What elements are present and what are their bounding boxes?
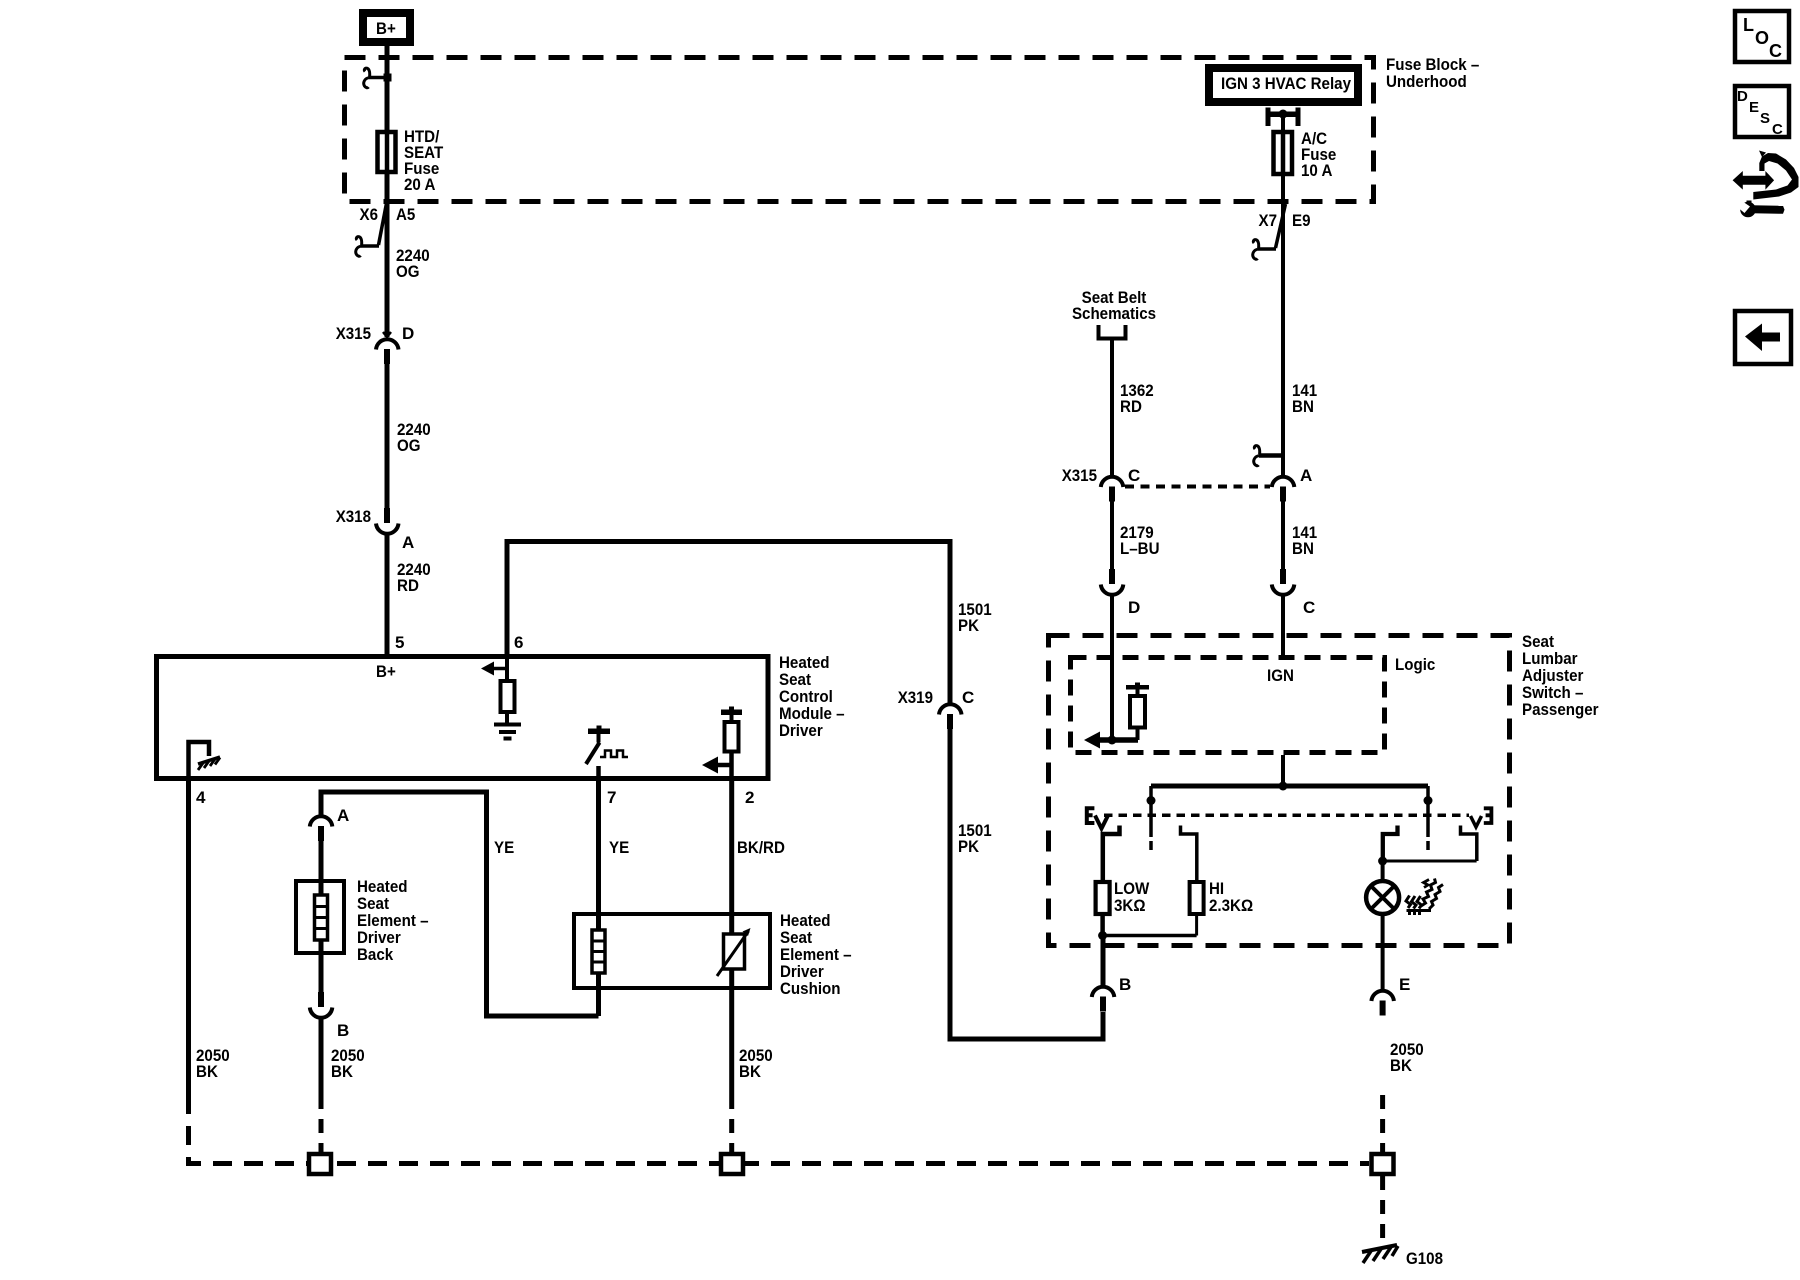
2050 BK label (pin E wire) <box>1390 1040 1424 1075</box>
wire fuse to X315 D <box>385 172 390 337</box>
svg-text:B+: B+ <box>376 19 396 38</box>
svg-text:7: 7 <box>607 788 616 807</box>
svg-text:Cushion: Cushion <box>780 979 841 998</box>
lumbar connector pin B <box>1092 975 1131 1012</box>
right switch movable contact <box>1424 786 1433 850</box>
wire back element to pin B <box>319 940 324 992</box>
svg-text:IGN 3 HVAC Relay: IGN 3 HVAC Relay <box>1221 74 1351 93</box>
svg-text:BN: BN <box>1292 539 1314 558</box>
svg-text:X315: X315 <box>1062 466 1097 485</box>
lumbar connector pin E <box>1371 975 1410 1016</box>
ground splice junction 2 <box>721 1154 743 1174</box>
svg-text:IGN: IGN <box>1267 666 1294 685</box>
switch supply rail <box>1151 782 1428 791</box>
svg-text:OG: OG <box>397 436 421 455</box>
logic internal: pull-up resistor with supply bar <box>1126 683 1149 741</box>
svg-text:Passenger: Passenger <box>1522 700 1599 719</box>
svg-text:C: C <box>962 688 974 707</box>
in-line connector pin A (seat back element) <box>310 806 349 841</box>
wire X315 C down (2179 L-BU) <box>1110 502 1114 570</box>
wire lamp to pin E <box>1381 914 1385 990</box>
left switch position symbol Ev <box>1087 808 1108 828</box>
svg-text:D: D <box>1737 88 1748 105</box>
wire logic output to switch rail <box>1281 755 1285 786</box>
logic internal: input arrow <box>1084 732 1138 749</box>
Seat Lumbar Adjuster Switch - Passenger dashed box <box>1049 632 1599 946</box>
wire pin A jumper from cushion element return <box>321 792 599 1016</box>
svg-text:C: C <box>1128 466 1140 485</box>
svg-text:G108: G108 <box>1406 1249 1443 1268</box>
X7 / E9 fuse block connector labels <box>1259 211 1311 230</box>
mechanical linkage dashed line <box>1104 813 1469 817</box>
svg-text:A: A <box>337 806 349 825</box>
wire X319 down and over to lumbar switch pin B (1501 PK) <box>950 729 1103 1039</box>
svg-text:B: B <box>1119 975 1131 994</box>
left switch fixed contact (LOW branch) <box>1103 826 1120 883</box>
relay output terminal bracket <box>1266 108 1301 131</box>
svg-text:Back: Back <box>357 945 394 964</box>
svg-text:4: 4 <box>196 788 206 807</box>
lamp feed junction <box>1378 857 1477 882</box>
svg-text:2.3KΩ: 2.3KΩ <box>1209 896 1253 915</box>
svg-text:YE: YE <box>494 838 514 857</box>
Heated Seat Element - Driver Back <box>296 877 429 964</box>
Fuse Block - Underhood label <box>1386 55 1479 91</box>
ground splice junction 3 <box>1372 1154 1394 1174</box>
LOW 3K resistor <box>1096 879 1151 915</box>
2050 BK label (pin 2 wire) <box>739 1046 773 1081</box>
svg-text:RD: RD <box>1120 397 1142 416</box>
svg-text:Logic: Logic <box>1395 655 1435 674</box>
LOC tab button <box>1735 11 1789 62</box>
svg-text:BK/RD: BK/RD <box>737 838 785 857</box>
LOW/HI junction to pin B <box>1098 914 1197 986</box>
clip connector above X315 A <box>1254 446 1283 466</box>
module internal: pin 7 PWM switch <box>586 726 628 779</box>
dashed ground drop from pin B <box>319 1095 324 1152</box>
in-line connector pin B (seat back element) <box>310 992 349 1040</box>
svg-text:D: D <box>1128 598 1140 617</box>
in-line connector X315 pin C <box>1062 466 1141 502</box>
in-line connector pin C (to logic IGN) <box>1272 569 1315 617</box>
wire module pin 4 to ground bus <box>186 778 191 1095</box>
clip connector on B+ feed inside fuse block <box>364 68 392 88</box>
Seat Belt Schematics reference <box>1072 288 1156 339</box>
svg-text:X319: X319 <box>898 688 933 707</box>
svg-text:OG: OG <box>396 262 420 281</box>
svg-text:A: A <box>1300 466 1312 485</box>
svg-text:BN: BN <box>1292 397 1314 416</box>
svg-text:X7: X7 <box>1259 211 1278 230</box>
2050 BK label (element B wire) <box>331 1046 365 1081</box>
svg-text:E9: E9 <box>1292 211 1311 230</box>
right switch fixed contact (lamp branch left) <box>1383 826 1398 862</box>
wire module pin 2 through cushion element <box>729 778 734 1095</box>
svg-text:E: E <box>1399 975 1410 994</box>
svg-text:5: 5 <box>395 633 404 652</box>
right switch second contact <box>1461 826 1477 862</box>
back navigation button <box>1735 311 1791 364</box>
svg-text:Driver: Driver <box>779 721 823 740</box>
wire X315 A down (141 BN) <box>1281 502 1285 570</box>
svg-text:PK: PK <box>958 837 980 856</box>
svg-text:L–BU: L–BU <box>1120 539 1160 558</box>
svg-text:BK: BK <box>1390 1056 1413 1075</box>
svg-text:3KΩ: 3KΩ <box>1114 896 1146 915</box>
Heated Seat Element - Driver Cushion <box>574 911 852 1016</box>
left switch movable contact <box>1147 786 1156 850</box>
indicator lamp <box>1366 881 1399 914</box>
Heated Seat Control Module - Driver box <box>157 653 845 779</box>
svg-text:C: C <box>1303 598 1315 617</box>
dashed ground drop from pin 2 <box>729 1095 734 1152</box>
wire X318 A to module pin 5, 2240 RD <box>385 535 390 656</box>
Fuse Block - Underhood dashed box <box>345 58 1374 202</box>
in-line connector X318 pin A <box>336 507 415 552</box>
svg-text:C: C <box>1772 121 1783 138</box>
svg-text:S: S <box>1760 110 1770 127</box>
in-line connector X315 pin D <box>336 324 415 364</box>
DESC tab button <box>1735 86 1789 138</box>
dashed ground drop from pin E <box>1380 1095 1385 1152</box>
2050 BK label (pin 4 wire) <box>196 1046 230 1081</box>
in-line connector pin D (to logic) <box>1101 569 1140 617</box>
wire pin B to ground bus (2050 BK) <box>319 1019 324 1095</box>
svg-text:B: B <box>337 1021 349 1040</box>
module internal: pin 6 sense resistor to ground <box>481 656 521 739</box>
svg-text:C: C <box>1769 41 1782 61</box>
svg-text:X315: X315 <box>336 324 371 343</box>
G108 chassis ground <box>1362 1245 1443 1268</box>
svg-text:YE: YE <box>609 838 629 857</box>
svg-text:20 A: 20 A <box>404 175 435 194</box>
wire module pin 7 into cushion element <box>596 778 601 930</box>
module internal: pin 4 chassis ground <box>189 742 221 778</box>
Logic dashed box <box>1071 655 1436 753</box>
dashed ground bus <box>189 1095 1370 1164</box>
svg-text:PK: PK <box>958 616 980 635</box>
in-line connector X319 pin C <box>898 688 975 729</box>
wire pin A into back element <box>319 841 324 895</box>
HTD/SEAT Fuse 20 A <box>378 127 444 194</box>
svg-text:O: O <box>1755 28 1769 48</box>
right switch position symbol v-backwards-E <box>1471 808 1492 827</box>
svg-text:6: 6 <box>514 633 523 652</box>
wire A/C fuse down (141 BN) <box>1281 174 1285 475</box>
svg-text:X318: X318 <box>336 507 371 526</box>
heated seat icon <box>1406 879 1443 916</box>
in-line connector X315 pin A <box>1272 466 1312 502</box>
A/C Fuse 10 A <box>1274 129 1337 180</box>
svg-text:BK: BK <box>196 1062 219 1081</box>
wire label 141 BN <box>1292 381 1317 416</box>
wire label 2240 OG <box>396 246 430 281</box>
wire C (IGN) into logic box <box>1281 597 1285 656</box>
schematic navigation icon (arrows and wrench) <box>1733 151 1799 218</box>
wire X315 D to X318 A, 2240 OG <box>385 364 390 508</box>
wire D into logic box <box>1110 597 1114 741</box>
svg-text:RD: RD <box>397 576 419 595</box>
ground splice junction 1 <box>309 1154 331 1174</box>
svg-text:A5: A5 <box>396 205 415 224</box>
B+ power feed box <box>363 13 410 42</box>
svg-text:BK: BK <box>739 1062 762 1081</box>
svg-text:X6: X6 <box>360 205 379 224</box>
svg-text:A: A <box>402 533 414 552</box>
dashed connector grouping line X315 C-A <box>1125 485 1270 489</box>
svg-text:2: 2 <box>745 788 754 807</box>
svg-text:Underhood: Underhood <box>1386 72 1467 91</box>
X7/E9 pass-through slash and clip <box>1253 204 1286 259</box>
svg-text:E: E <box>1749 99 1759 116</box>
svg-text:L: L <box>1743 15 1754 35</box>
X6/A5 pass-through slash and clip <box>356 198 388 256</box>
svg-text:B+: B+ <box>376 662 396 681</box>
wire module pin 6 up and over to X319 (1501 PK) <box>507 542 950 704</box>
svg-text:Schematics: Schematics <box>1072 304 1156 323</box>
left switch second contact (HI branch) <box>1181 826 1197 883</box>
HI 2.3K resistor <box>1190 879 1254 915</box>
wire seat belt to X315 C (1362 RD) <box>1110 341 1114 476</box>
module internal: pin 2 driver with feedback arrow <box>702 707 742 779</box>
svg-text:10 A: 10 A <box>1301 161 1332 180</box>
X6 / A5 fuse block connector labels <box>360 205 416 224</box>
dashed drop junction 3 to G108 <box>1380 1176 1385 1246</box>
IGN 3 HVAC Relay <box>1209 68 1358 102</box>
svg-text:BK: BK <box>331 1062 354 1081</box>
wire B+ to HTD/SEAT fuse <box>385 46 390 130</box>
svg-text:D: D <box>402 324 414 343</box>
